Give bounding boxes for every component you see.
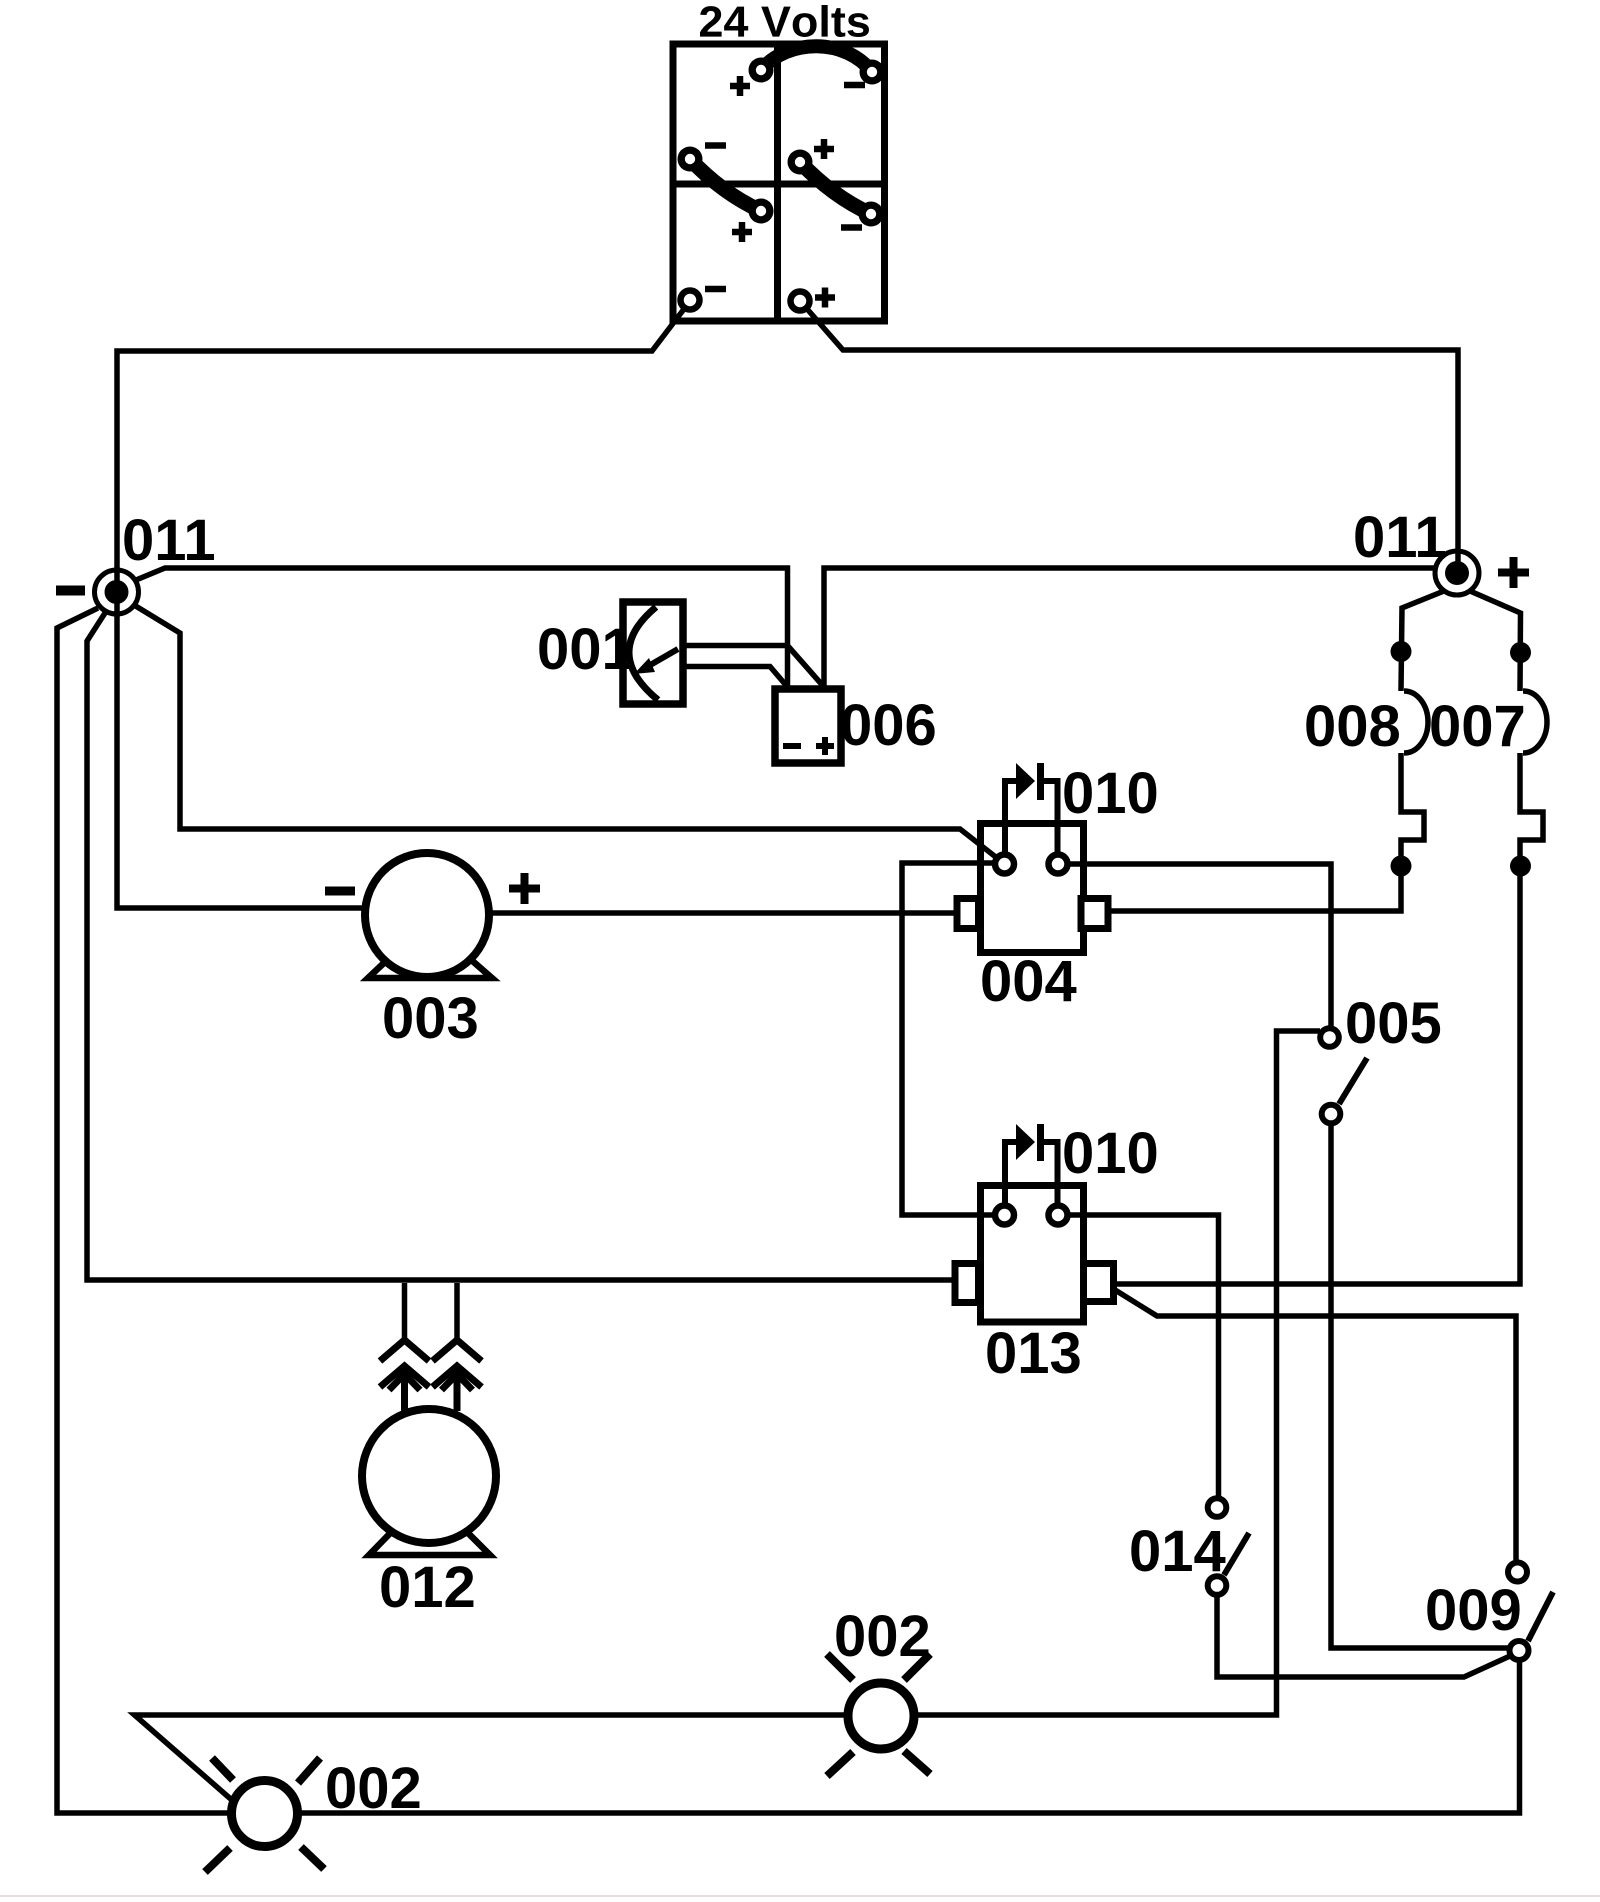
relay 013 body [981, 1186, 1084, 1323]
wire shunt 006 right pin to right 011 (main bus right) [824, 568, 1436, 688]
switch 014 blade [1224, 1533, 1249, 1575]
battery terminal T6 [859, 202, 884, 227]
svg-text:011: 011 [122, 508, 216, 573]
shunt 006 minus sign [783, 743, 801, 749]
svg-text:002: 002 [834, 1604, 931, 1669]
junction dot coil 007 bottom [1510, 856, 1531, 877]
battery divider horizontal [673, 181, 885, 188]
svg-text:004: 004 [980, 949, 1077, 1014]
battery divider vertical [774, 44, 781, 321]
svg-text:001: 001 [537, 617, 634, 682]
wire left 011 down to relay 013 left tab [87, 613, 955, 1280]
battery terminal holes [685, 65, 877, 219]
motor 003 pedestal [368, 944, 492, 978]
label 24 Volts [700, 5, 869, 37]
svg-text:002: 002 [325, 1756, 422, 1821]
minus sign at left 011 [56, 586, 85, 596]
battery sign minus T3 [705, 142, 726, 149]
coil 007 lower wire with notch to relay 013 right tab [1114, 753, 1544, 1284]
svg-text:005: 005 [1345, 991, 1442, 1056]
relay 004 left tab [957, 899, 979, 929]
meter 001 scale arc [629, 607, 658, 700]
wire motor 012 right tap [454, 1283, 460, 1340]
junction dot coil 008 top [1391, 641, 1412, 662]
motor 003 plus sign [509, 873, 540, 904]
motor 012 pedestal [369, 1520, 490, 1555]
svg-text:010: 010 [1062, 761, 1159, 826]
wire relay 013 right tab to switch 009 upper contact [1114, 1289, 1517, 1560]
wire left 011 to relay 004 left pin [134, 605, 997, 858]
meter 001 needle arrowhead [634, 658, 655, 674]
lamp 002 bottom-left [232, 1781, 298, 1847]
battery terminal T2 [860, 60, 885, 85]
svg-text:013: 013 [985, 1321, 1082, 1386]
diode 010 cathode bar (relay 013) [1037, 1124, 1044, 1161]
svg-text:003: 003 [382, 986, 479, 1051]
relay 013 right tab [1084, 1264, 1114, 1302]
battery terminal T3 [678, 147, 703, 172]
wire relay 013 right pin to switch 014 top [1067, 1215, 1219, 1497]
diode 010 triangle (relay 004) [1016, 763, 1035, 799]
battery terminal T8 [791, 292, 810, 311]
wire relay 004 right pin to switch 005 top [1067, 864, 1331, 1026]
wire left 011 to shunt 006 left pin (main bus left) [136, 568, 788, 688]
battery sign plus T1 [730, 76, 750, 96]
meter 001 box [623, 602, 683, 704]
svg-text:008: 008 [1304, 694, 1401, 759]
connector 011 right ring [1435, 551, 1479, 595]
diode 010 loop on relay 013 [1005, 1142, 1016, 1205]
battery sign plus T8 [815, 288, 835, 308]
relay 013 left tab [955, 1264, 979, 1303]
wire junction diagonal to shunt 006 right pin [788, 646, 825, 688]
switch 005 top contact [1320, 1028, 1339, 1047]
lamp 002 middle rays [827, 1654, 930, 1776]
connector 011 left ring [95, 570, 139, 614]
battery terminal T1 [749, 58, 774, 83]
lamp 002 middle [848, 1683, 914, 1749]
scan artifact line at bottom [0, 1895, 1600, 1897]
switch 014 top contact [1208, 1498, 1227, 1517]
diode 010 triangle (relay 013) [1016, 1124, 1035, 1160]
svg-text:014: 014 [1129, 1519, 1226, 1584]
battery link middle-left [690, 159, 761, 211]
svg-text:007: 007 [1429, 694, 1526, 759]
coil 008 lower wire with notch to relay 004 right tab [1108, 753, 1424, 911]
meter 001 needle [645, 649, 678, 668]
plus sign at right 011 [1498, 557, 1529, 588]
connector 011 right center dot [1445, 561, 1469, 585]
wire middle lamp 002 to lower-left lamp 002 [135, 1715, 849, 1801]
svg-text:012: 012 [379, 1555, 476, 1620]
connector chevrons on 012 left tap [380, 1340, 429, 1411]
wire switch 009 pivot to bottom bus and lamp 002 [298, 1661, 1520, 1813]
motor 012 body [362, 1409, 496, 1543]
svg-text:011: 011 [1353, 505, 1447, 570]
shunt 006 plus sign [816, 737, 834, 755]
relay 004 right pin [1049, 855, 1068, 874]
motor 003 body [365, 853, 489, 977]
coil 007 winding arc [1523, 691, 1547, 753]
junction dot coil 007 top [1510, 642, 1531, 663]
relay 004 left pin [995, 855, 1014, 874]
wire relay 004 left pin to relay 013 left pin [902, 863, 995, 1215]
battery terminal T5 [749, 199, 774, 224]
battery sign minus T7 [705, 286, 726, 293]
battery terminal T4 [788, 150, 813, 175]
wire battery positive to right connector 011 [808, 310, 1458, 573]
coil 007 wire from right 011 [1470, 591, 1521, 691]
wire battery negative to left connector and motor 003 minus [117, 309, 684, 908]
relay 013 right pin [1049, 1206, 1068, 1225]
switch 009 blade [1528, 1592, 1553, 1641]
wire switch 005 top to middle lamp 002 [914, 1031, 1320, 1715]
relay 004 right tab [1081, 899, 1108, 929]
battery sign minus T2 [844, 82, 865, 89]
wire switch 014 bottom to switch 009 pivot [1217, 1595, 1510, 1677]
battery sign plus T4 [814, 139, 834, 159]
connector 011 left center dot [105, 580, 129, 604]
motor 003 minus sign [325, 887, 355, 896]
wire left 011 down to lamp 002 (bottom left) [57, 608, 231, 1813]
relay 004 body [981, 824, 1084, 953]
wire switch 005 bottom to switch 009 pivot [1331, 1124, 1508, 1648]
battery link middle-right [800, 162, 871, 214]
diode 010 cathode bar (relay 004) [1037, 763, 1044, 800]
diode 010 loop on relay 004 [1005, 781, 1016, 854]
relay 013 left pin [995, 1206, 1014, 1225]
wire motor 012 left tap [402, 1283, 408, 1340]
wire meter 001 upper terminal [683, 643, 788, 649]
lamp 002 bottom-left rays [205, 1758, 324, 1872]
switch 005 bottom contact [1322, 1105, 1341, 1124]
switch 009 pivot contact [1510, 1641, 1529, 1660]
wire meter 001 lower terminal to shunt left pin [683, 667, 788, 688]
svg-text:009: 009 [1425, 1578, 1522, 1643]
battery terminal T7 [681, 291, 700, 310]
svg-text:010: 010 [1062, 1121, 1159, 1186]
switch 009 upper contact [1508, 1563, 1527, 1582]
connector chevrons on 012 right tap [433, 1340, 482, 1411]
battery link top arc [761, 46, 872, 72]
svg-text:006: 006 [840, 693, 937, 758]
wire motor 003 plus to relay 004 left tab [489, 910, 957, 916]
coil 008 wire from right 011 [1401, 591, 1444, 691]
switch 014 bottom contact [1208, 1576, 1227, 1595]
shunt 006 box [775, 689, 841, 763]
junction dot coil 008 bottom [1391, 856, 1412, 877]
battery sign plus T5 [732, 222, 752, 242]
battery outer box [673, 44, 885, 321]
battery sign minus T6 [841, 224, 862, 231]
battery 24 Volts [673, 44, 885, 321]
coil 008 winding arc [1404, 691, 1428, 753]
switch 005 blade [1339, 1058, 1367, 1104]
